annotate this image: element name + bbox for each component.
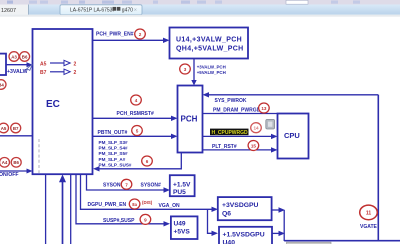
svg-text:8a: 8a bbox=[132, 202, 137, 207]
wire SYSON bbox=[87, 174, 171, 193]
wire long left vertical bbox=[45, 174, 47, 244]
svg-text:PLT_RST#: PLT_RST# bbox=[212, 144, 237, 150]
dashed internal line bbox=[38, 139, 40, 173]
pin circle B6b bbox=[11, 158, 21, 168]
svg-text:SYSON: SYSON bbox=[103, 183, 121, 189]
annotation icon bbox=[266, 119, 275, 129]
svg-text:PM_DRAM_PWRGD: PM_DRAM_PWRGD bbox=[213, 107, 261, 113]
U14 block bbox=[170, 28, 249, 59]
svg-text:+3VALW: +3VALW bbox=[7, 69, 28, 75]
ref circle 2 bbox=[135, 29, 146, 39]
ref circle 5 bbox=[132, 126, 143, 136]
svg-text:(DIS): (DIS) bbox=[142, 200, 153, 205]
+1.5V PU5 block bbox=[170, 175, 195, 196]
svg-text:A4: A4 bbox=[2, 160, 8, 165]
svg-text:EC: EC bbox=[46, 99, 60, 110]
svg-text:PCH: PCH bbox=[181, 114, 198, 123]
pin circle B4 bbox=[0, 80, 6, 90]
ref circle 6 bbox=[142, 156, 153, 166]
svg-text:DGPU_PWR_EN: DGPU_PWR_EN bbox=[88, 202, 127, 208]
svg-text:g470: g470 bbox=[122, 7, 133, 13]
ref circle 9 bbox=[140, 214, 151, 224]
svg-text:VGA_ON: VGA_ON bbox=[159, 203, 181, 209]
svg-text:9: 9 bbox=[144, 217, 147, 222]
partial box top-left bbox=[0, 54, 6, 75]
ref circle 4 bbox=[131, 95, 142, 105]
pin circle A3 bbox=[9, 52, 19, 62]
svg-text:A5: A5 bbox=[1, 126, 7, 131]
cursor arrow bbox=[26, 64, 33, 70]
wire PCH_RSMRST# bbox=[93, 111, 178, 121]
ref circle 7 bbox=[121, 179, 132, 189]
wire PBTN_OUT# bbox=[93, 130, 178, 139]
svg-text:PM_SLP_S5#: PM_SLP_S5# bbox=[99, 151, 129, 156]
svg-text:11: 11 bbox=[366, 211, 372, 217]
PM_SLP labels bbox=[99, 140, 132, 167]
svg-text:12607: 12607 bbox=[1, 8, 16, 14]
svg-text:A3: A3 bbox=[11, 54, 17, 59]
svg-text:7: 7 bbox=[125, 182, 128, 187]
svg-text:+1.5V: +1.5V bbox=[173, 182, 191, 189]
svg-text:QH4,+5VALW_PCH: QH4,+5VALW_PCH bbox=[176, 46, 244, 53]
svg-text:SUSP#,SUSP: SUSP#,SUSP bbox=[103, 218, 135, 224]
wire Q6 out bbox=[272, 207, 285, 241]
CPU block bbox=[278, 114, 309, 159]
ref circle 11 bbox=[360, 205, 378, 220]
svg-text:B4: B4 bbox=[0, 82, 4, 87]
svg-text:U49: U49 bbox=[174, 221, 186, 228]
svg-text:H_CPUPWRGD: H_CPUPWRGD bbox=[212, 130, 249, 136]
ref circle 8a bbox=[129, 199, 140, 209]
svg-text:PM_SLP_SUS#: PM_SLP_SUS# bbox=[99, 162, 132, 167]
wire second vertical bbox=[70, 174, 72, 244]
+1.5VSDGPU U40 block bbox=[219, 227, 272, 244]
tab bar bbox=[0, 5, 400, 17]
svg-text:PM_SLP_A#: PM_SLP_A# bbox=[99, 157, 126, 162]
wire U40 out bbox=[272, 231, 285, 236]
svg-text:CPU: CPU bbox=[284, 131, 300, 140]
+3VSDGPU Q6 block bbox=[218, 197, 272, 220]
wire PM_DRAM_PWRGD bbox=[203, 107, 278, 113]
svg-text:5: 5 bbox=[136, 129, 139, 134]
wire SUSP bbox=[76, 174, 170, 226]
svg-text:+1.5VSDGPU: +1.5VSDGPU bbox=[223, 231, 265, 238]
net H_CPUPWRGD highlighted bbox=[203, 129, 278, 140]
off-page ref B7 inside EC bbox=[40, 69, 77, 76]
svg-text:PCH_RSMRST#: PCH_RSMRST# bbox=[117, 111, 154, 117]
svg-text:SYSON#: SYSON# bbox=[141, 183, 162, 189]
svg-text:U14,+3VALW_PCH: U14,+3VALW_PCH bbox=[176, 36, 242, 43]
wire PLT_RST# bbox=[203, 144, 278, 153]
pin circle B7 bbox=[11, 123, 21, 133]
svg-text:2: 2 bbox=[74, 62, 77, 68]
svg-text:B6: B6 bbox=[22, 54, 28, 59]
pin circle A4 bbox=[0, 158, 10, 168]
ref circle 15 bbox=[248, 141, 259, 151]
svg-text:4: 4 bbox=[135, 98, 138, 103]
toolbar strip bbox=[0, 0, 400, 5]
svg-text:2: 2 bbox=[74, 70, 77, 76]
svg-text:PM_SLP_S3#: PM_SLP_S3# bbox=[99, 140, 129, 145]
wire SYS_PWROK bbox=[203, 92, 379, 240]
svg-text:+5VS: +5VS bbox=[174, 229, 191, 236]
svg-text:PM_SLP_S4#: PM_SLP_S4# bbox=[99, 146, 129, 151]
svg-text:Q6: Q6 bbox=[222, 211, 231, 218]
svg-text:A5: A5 bbox=[40, 62, 47, 68]
svg-text:B7: B7 bbox=[13, 126, 19, 131]
wire PCH_PWR_EN# bbox=[93, 32, 170, 43]
svg-text:2: 2 bbox=[139, 32, 142, 37]
wire +3VALW bbox=[6, 62, 33, 75]
ref circle 13 bbox=[259, 103, 270, 113]
wire ON/OFF bbox=[0, 169, 33, 178]
wire DGPU_PWR_EN / VGA_ON bbox=[81, 174, 219, 212]
svg-text:+5VALW_PCH: +5VALW_PCH bbox=[197, 70, 226, 75]
svg-text:PBTN_OUT#: PBTN_OUT# bbox=[98, 130, 128, 136]
wire U14 to PCH bbox=[191, 59, 225, 86]
svg-text:PCH_PWR_EN#: PCH_PWR_EN# bbox=[96, 32, 134, 38]
wire A6 B7 bbox=[0, 135, 33, 137]
wire PM_SLP bus bbox=[93, 153, 181, 172]
svg-text:15: 15 bbox=[251, 144, 257, 149]
svg-text:×: × bbox=[134, 7, 137, 13]
svg-text:B6: B6 bbox=[13, 160, 19, 165]
svg-text:14: 14 bbox=[253, 126, 259, 131]
svg-text:ON/OFF: ON/OFF bbox=[0, 172, 19, 178]
svg-text:+3VSDGPU: +3VSDGPU bbox=[222, 202, 259, 209]
bottom-right block bbox=[284, 241, 400, 244]
svg-text:VGATE: VGATE bbox=[360, 224, 378, 230]
ref circle 14 bbox=[251, 123, 262, 133]
svg-text:SYS_PWROK: SYS_PWROK bbox=[215, 98, 247, 104]
svg-text:LA-6751P LA-6753P: LA-6751P LA-6753P bbox=[70, 7, 116, 13]
svg-text:6: 6 bbox=[146, 159, 149, 164]
EC block bbox=[33, 29, 93, 174]
U49 +5VS block bbox=[171, 216, 198, 239]
svg-text:13: 13 bbox=[261, 106, 267, 111]
svg-text:U40: U40 bbox=[223, 239, 236, 244]
ref circle 3 bbox=[180, 64, 191, 74]
off-page ref A5 inside EC bbox=[40, 60, 77, 67]
bus arrow up into EC bbox=[60, 175, 66, 244]
svg-text:+3VALW_PCH: +3VALW_PCH bbox=[197, 65, 226, 70]
svg-text:PU5: PU5 bbox=[173, 189, 186, 196]
svg-text:B7: B7 bbox=[40, 70, 47, 76]
pin circle B6 bbox=[20, 52, 30, 62]
svg-text:3: 3 bbox=[184, 67, 187, 72]
PCH block bbox=[178, 86, 203, 153]
wire VGA_ON branch to U40 bbox=[208, 209, 219, 236]
pin circle A5 bbox=[0, 123, 9, 133]
